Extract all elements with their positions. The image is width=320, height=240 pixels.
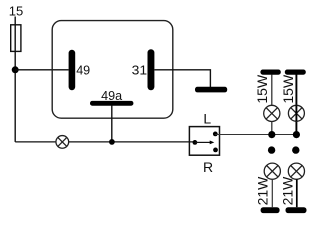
svg-text:R: R [203, 159, 213, 175]
relay K1 outline [52, 21, 173, 119]
lamp: right 21W [288, 163, 304, 179]
node: left 15W feed [268, 131, 275, 138]
wire: junction to relay terminal 49 [15, 69, 68, 71]
front lamp terminal bar (left 15W) [260, 70, 280, 75]
wire: switch L contact to lamp feed [215, 134, 296, 136]
front lamp terminal bar (right 15W) [285, 70, 306, 75]
svg-text:15: 15 [9, 3, 23, 18]
svg-text:21W: 21W [280, 176, 296, 206]
pilot indicator lamp [56, 136, 69, 149]
wire: through right 15W lamp [295, 105, 297, 121]
terminal 49 (contact bar) [69, 50, 76, 90]
switch contact L [213, 132, 218, 137]
terminal 49a (contact bar) [90, 101, 133, 106]
wire: terminal 49a down to bottom run [111, 106, 113, 142]
wire: right 21W lamp to terminal [296, 179, 298, 207]
ground (chassis bar) [195, 87, 227, 93]
svg-text:15W: 15W [280, 74, 296, 104]
svg-text:31: 31 [132, 62, 148, 77]
wire: left 15W lamp column [271, 75, 273, 106]
junction node below 49a [109, 139, 115, 145]
lamp: right 15W [288, 105, 304, 121]
turn-signal switch S1 box [189, 127, 219, 156]
svg-text:21W: 21W [255, 176, 271, 206]
lamp: left 21W [264, 163, 280, 179]
wire: terminal 31 to ground [154, 70, 210, 87]
wire: pilot lamp to switch [69, 141, 195, 143]
rear lamp terminal bar (right 21W) [286, 207, 307, 213]
svg-text:15W: 15W [254, 74, 270, 104]
fuse F1 [11, 25, 21, 52]
terminal 31 (contact bar) [148, 49, 155, 90]
wire: bottom run, rail to pilot lamp [15, 141, 56, 143]
switch contact R [213, 148, 218, 153]
lamp: left 15W [264, 105, 280, 121]
rear lamp terminal bar (left 21W) [261, 207, 280, 213]
open contact dot (left R side) [268, 146, 275, 153]
node: right 15W feed [293, 131, 300, 138]
svg-text:49a: 49a [101, 88, 123, 103]
switch common contact [193, 140, 198, 145]
junction node below fuse [12, 66, 19, 73]
wire: left rail from label 15 down to bottom run [14, 17, 16, 142]
open contact dot (right R side) [292, 146, 299, 153]
wire: left 21W lamp to terminal [271, 179, 273, 207]
svg-text:49: 49 [76, 62, 90, 77]
wire: right 15W lamp column [295, 75, 297, 135]
svg-text:L: L [203, 111, 211, 127]
switch wiper arrow [195, 141, 211, 143]
